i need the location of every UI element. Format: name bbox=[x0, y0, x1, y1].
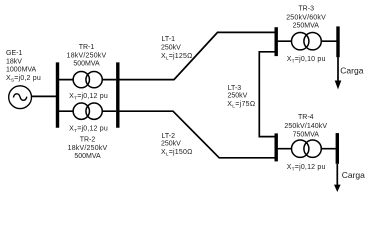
svg-text:TR-3: TR-3 bbox=[298, 6, 314, 13]
svg-text:Carga: Carga bbox=[342, 170, 365, 180]
svg-text:500MVA: 500MVA bbox=[73, 60, 100, 67]
svg-text:LT-3: LT-3 bbox=[228, 85, 242, 92]
svg-text:XL=j125Ω: XL=j125Ω bbox=[161, 53, 193, 62]
svg-text:TR-1: TR-1 bbox=[79, 44, 95, 51]
svg-text:XL=j150Ω: XL=j150Ω bbox=[161, 149, 193, 158]
svg-text:250kV/140kV: 250kV/140kV bbox=[284, 123, 327, 130]
svg-text:750MVA: 750MVA bbox=[293, 131, 320, 138]
svg-text:XT=j0,12 pu: XT=j0,12 pu bbox=[69, 93, 108, 102]
svg-text:250kV: 250kV bbox=[161, 45, 181, 52]
svg-text:Carga: Carga bbox=[340, 66, 363, 76]
svg-text:TR-4: TR-4 bbox=[298, 114, 314, 121]
svg-text:XT=j0,10 pu: XT=j0,10 pu bbox=[287, 56, 326, 65]
svg-text:XT=j0,12 pu: XT=j0,12 pu bbox=[287, 164, 326, 173]
svg-text:250kV/60kV: 250kV/60kV bbox=[286, 15, 326, 22]
svg-text:250kV: 250kV bbox=[161, 141, 181, 148]
svg-text:18kV: 18kV bbox=[6, 58, 22, 65]
svg-text:250kV: 250kV bbox=[228, 93, 248, 100]
svg-text:500MVA: 500MVA bbox=[74, 153, 101, 160]
svg-text:1000MVA: 1000MVA bbox=[6, 67, 37, 74]
svg-text:LT-2: LT-2 bbox=[162, 133, 176, 140]
svg-text:XT=j0,12 pu: XT=j0,12 pu bbox=[69, 126, 108, 135]
svg-text:250MVA: 250MVA bbox=[293, 23, 320, 30]
svg-text:LT-1: LT-1 bbox=[162, 36, 176, 43]
svg-text:18kV/250kV: 18kV/250kV bbox=[68, 145, 108, 152]
svg-text:XS=j0,2 pu: XS=j0,2 pu bbox=[6, 75, 41, 84]
svg-text:TR-2: TR-2 bbox=[80, 136, 96, 143]
svg-text:XL=j75Ω: XL=j75Ω bbox=[227, 101, 255, 110]
svg-text:18kV/250kV: 18kV/250kV bbox=[67, 53, 107, 60]
svg-text:GE-1: GE-1 bbox=[6, 50, 22, 57]
